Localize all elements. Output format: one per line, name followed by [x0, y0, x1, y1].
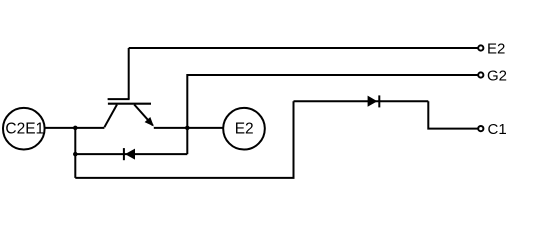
svg-text:E2: E2 [487, 40, 505, 57]
D2 cathode bar [123, 148, 125, 160]
D2 triangle [125, 149, 135, 160]
D1 cathode bar [378, 95, 380, 107]
svg-text:G2: G2 [487, 67, 507, 84]
terminal circle C2E1 [3, 108, 45, 150]
wire emitter to E2 circle [154, 127, 223, 129]
wire to pin C1 [428, 101, 478, 128]
junction node at emitter [185, 126, 190, 131]
wire top diode row [294, 100, 429, 102]
svg-text:E2: E2 [235, 121, 254, 138]
wire gate lead vertical [128, 48, 130, 99]
diode D1 (to C1, cathode right) [368, 95, 380, 107]
terminal pin C1 [478, 121, 506, 138]
wire branch down from C2E1 node [74, 128, 76, 178]
gate bar [108, 98, 130, 100]
svg-text:C1: C1 [488, 121, 507, 138]
collector diagonal [104, 105, 117, 128]
wire freewheel diode row [75, 153, 187, 155]
junction node at C2E1 branch [73, 126, 78, 131]
terminal pin E2 [478, 40, 505, 57]
D1 triangle [368, 96, 378, 107]
emitter arrowhead [145, 117, 154, 126]
wire to pin E2 [129, 47, 478, 49]
wire to pin G2 [187, 75, 478, 154]
terminal pin G2 [478, 67, 507, 84]
IGBT Q2 [104, 99, 153, 127]
wire bottom [75, 101, 293, 178]
emitter diagonal [134, 105, 153, 126]
diode D2 (freewheel, cathode left) [124, 148, 135, 160]
svg-text:C2E1: C2E1 [5, 121, 44, 138]
terminal circle E2 [223, 108, 265, 150]
junction node at freewheel row [73, 152, 78, 157]
wire C2E1 to collector [45, 127, 104, 129]
body bar [108, 103, 151, 105]
